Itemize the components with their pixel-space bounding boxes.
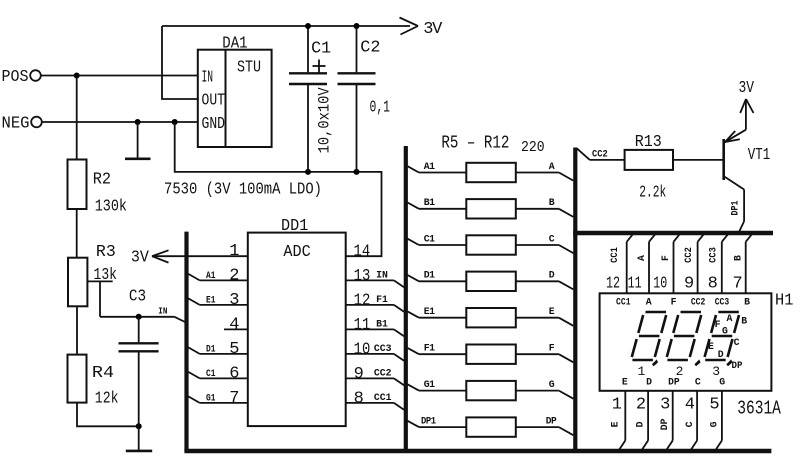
resistor R13 bbox=[625, 150, 673, 170]
net label DP1 (row) bbox=[421, 416, 436, 427]
label R5 - R12 bbox=[441, 134, 509, 154]
svg-text:R2: R2 bbox=[93, 171, 111, 190]
svg-text:B1: B1 bbox=[424, 197, 435, 208]
label ADC bbox=[283, 243, 310, 262]
label R4 bbox=[92, 364, 114, 383]
wire POS to DA1 IN bbox=[41, 75, 198, 77]
net label D (row) bbox=[549, 270, 555, 281]
svg-text:10,0x10V: 10,0x10V bbox=[316, 87, 334, 154]
wire display top pin 10 (F) to top bus bbox=[674, 234, 681, 294]
wire DP from R12 to right bus bbox=[516, 427, 574, 435]
svg-text:8: 8 bbox=[708, 274, 718, 293]
pin label D (inside H1 bottom) bbox=[646, 377, 652, 388]
wire E from R9 to right bus bbox=[516, 318, 574, 326]
label DD1 bbox=[281, 217, 308, 236]
svg-text:A1: A1 bbox=[206, 270, 216, 281]
svg-text:R5 – R12: R5 – R12 bbox=[441, 134, 509, 154]
resistor R6 (B segment) bbox=[466, 199, 516, 218]
svg-text:3: 3 bbox=[660, 396, 670, 415]
pin number 7 (H1 top) bbox=[732, 274, 742, 293]
pin number 12 (H1 top) bbox=[606, 274, 620, 293]
ADC DD1 box bbox=[248, 233, 346, 427]
value 13k (R3) bbox=[94, 266, 118, 285]
wire display bottom pin 1 (E) to bottom bus bbox=[619, 391, 625, 450]
net label A1 (pin 2) bbox=[206, 270, 216, 281]
power arrow 3V (top rail) bbox=[400, 18, 419, 35]
pin label E (inside H1 bottom) bbox=[622, 377, 628, 388]
segment label A (digit 3) bbox=[727, 313, 733, 324]
net label F1 (row) bbox=[424, 343, 435, 354]
pin number 5 (H1 bottom) bbox=[709, 396, 719, 415]
pin label DP (inside H1 bottom) bbox=[668, 377, 680, 388]
svg-text:D: D bbox=[549, 270, 555, 281]
wire C1 from middle bus to R7 bbox=[408, 239, 467, 245]
power arrow 3V (VT1) bbox=[740, 99, 753, 113]
svg-text:DD1: DD1 bbox=[281, 217, 308, 236]
pin number 3 (H1 bottom) bbox=[660, 396, 670, 415]
wire display top pin 12 (CC1) to top bus bbox=[627, 234, 634, 294]
net label 3V (pin 1) bbox=[131, 249, 150, 268]
svg-text:DA1: DA1 bbox=[222, 35, 247, 54]
net label CC3 (pin 10) bbox=[374, 343, 392, 354]
wire G1 from middle bus to R11 bbox=[408, 384, 467, 390]
7-seg digit 3 (H1) bbox=[705, 312, 739, 360]
svg-text:130k: 130k bbox=[95, 198, 127, 217]
wire pin 11 B1 to middle bus bbox=[346, 329, 404, 336]
label R2 bbox=[93, 171, 111, 190]
capacitor C1 bbox=[289, 26, 327, 172]
svg-text:B: B bbox=[741, 316, 747, 327]
net label F (H1 top wire) bbox=[660, 255, 671, 261]
label 7530 (3V 100mA LDO) bbox=[164, 181, 322, 200]
decimal point after digit 3 bbox=[726, 359, 732, 366]
pin label C (inside H1 bottom) bbox=[695, 377, 701, 388]
resistor R7 (C segment) bbox=[466, 235, 516, 254]
wire pin 3 E1 to left bus bbox=[188, 298, 248, 305]
label C1 bbox=[311, 40, 331, 59]
label POS bbox=[2, 68, 29, 87]
net label A1 (row) bbox=[424, 161, 435, 172]
digit index 2 (H1) bbox=[676, 364, 683, 379]
junction C2 bottom bbox=[354, 169, 360, 175]
net label B1 (pin 11) bbox=[376, 319, 388, 330]
svg-text:DP: DP bbox=[546, 416, 557, 427]
net label B1 (row) bbox=[424, 197, 435, 208]
wire display bottom pin 5 (G) to bottom bus bbox=[716, 391, 722, 450]
resistor R2 bbox=[68, 160, 87, 210]
value 10,0x10V (C1) bbox=[316, 87, 334, 154]
wire pin 2 A1 to left bus bbox=[188, 274, 248, 281]
wire R2 to R3 bbox=[76, 209, 78, 258]
net label G1 (row) bbox=[424, 379, 435, 390]
net label B (H1 top wire) bbox=[733, 255, 744, 261]
svg-text:A: A bbox=[549, 161, 555, 172]
junction C1 bottom bbox=[305, 169, 311, 175]
net label C1 (row) bbox=[424, 233, 435, 244]
svg-text:7530 (3V 100mA LDO): 7530 (3V 100mA LDO) bbox=[164, 181, 322, 200]
pin number 9 (DD1) bbox=[354, 365, 364, 384]
pin number 8 (H1 top) bbox=[708, 274, 718, 293]
svg-text:A: A bbox=[727, 313, 733, 324]
bus left vertical bbox=[184, 232, 188, 451]
svg-text:D: D bbox=[718, 349, 724, 360]
value 12k (R4) bbox=[95, 390, 119, 409]
svg-text:E: E bbox=[708, 341, 714, 352]
wire display top pin 8 (CC3) to top bus bbox=[722, 234, 729, 294]
segment label E (digit 3) bbox=[708, 341, 714, 352]
wire R13 to VT1 base bbox=[673, 159, 723, 161]
svg-text:R13: R13 bbox=[635, 133, 662, 152]
svg-text:E1: E1 bbox=[424, 306, 435, 317]
wire pin 5 D1 to left bus bbox=[188, 347, 248, 354]
svg-text:C: C bbox=[684, 421, 695, 427]
svg-text:DP1: DP1 bbox=[730, 200, 741, 215]
pin label OUT (DA1) bbox=[202, 92, 226, 111]
svg-text:NEG: NEG bbox=[2, 115, 30, 134]
svg-text:14: 14 bbox=[354, 242, 371, 261]
svg-text:G: G bbox=[708, 421, 719, 427]
svg-text:1: 1 bbox=[229, 242, 239, 261]
resistor R3 bbox=[68, 258, 87, 307]
wire pin 10 CC3 to middle bus bbox=[346, 354, 404, 361]
svg-text:E: E bbox=[609, 421, 620, 427]
junction NEG-ground bbox=[135, 119, 141, 125]
wire R4 bottom to C3 bottom bbox=[77, 403, 139, 427]
svg-text:220: 220 bbox=[521, 139, 545, 156]
pin label B (inside H1 top) bbox=[744, 296, 750, 307]
svg-text:F: F bbox=[660, 255, 671, 261]
net label 3V (top rail) bbox=[423, 20, 443, 39]
svg-text:DP1: DP1 bbox=[421, 416, 436, 427]
svg-text:4: 4 bbox=[229, 316, 239, 335]
pin number 7 (DD1) bbox=[229, 389, 238, 408]
display H1 box bbox=[600, 293, 772, 391]
svg-text:3631A: 3631A bbox=[737, 398, 781, 420]
label STU bbox=[237, 59, 261, 78]
polarity + (C1) bbox=[313, 60, 326, 73]
net label CC2 (H1 top wire) bbox=[683, 247, 694, 263]
pin number 14 (DD1) bbox=[354, 242, 371, 261]
bus right vertical bbox=[573, 148, 577, 452]
wire B from R6 to right bus bbox=[516, 209, 574, 217]
regulator DA1 box bbox=[198, 50, 272, 147]
svg-text:CC3: CC3 bbox=[715, 296, 730, 307]
svg-text:R3: R3 bbox=[96, 243, 116, 262]
net label A (row) bbox=[549, 161, 555, 172]
svg-text:1: 1 bbox=[637, 364, 645, 379]
wire display top pin 9 (CC2) to top bus bbox=[698, 234, 705, 294]
wire IN diagonal to bus bbox=[175, 317, 187, 323]
svg-text:F1: F1 bbox=[376, 294, 388, 305]
net label DP (row) bbox=[546, 416, 557, 427]
pin number 4 (DD1) bbox=[229, 316, 239, 335]
resistor R5 (A segment) bbox=[466, 163, 516, 182]
svg-text:B: B bbox=[733, 255, 744, 261]
svg-text:CC1: CC1 bbox=[616, 296, 631, 307]
svg-text:2: 2 bbox=[676, 364, 683, 379]
net label D1 (row) bbox=[424, 270, 435, 281]
net label CC2 (R13) bbox=[592, 149, 608, 160]
bus middle vertical bbox=[404, 146, 408, 451]
svg-text:G: G bbox=[549, 379, 555, 390]
bus top-right horizontal bbox=[573, 231, 773, 235]
svg-text:E1: E1 bbox=[206, 294, 216, 305]
svg-text:0,1: 0,1 bbox=[370, 99, 391, 118]
wire 3V top rail bbox=[162, 25, 410, 27]
net label F (row) bbox=[549, 343, 555, 354]
svg-text:IN: IN bbox=[202, 68, 214, 87]
junction C1 top rail bbox=[305, 23, 311, 29]
svg-text:10: 10 bbox=[653, 274, 667, 293]
net label CC3 (H1 top wire) bbox=[707, 247, 718, 263]
svg-text:OUT: OUT bbox=[202, 92, 226, 111]
wire display bottom pin 4 (C) to bottom bus bbox=[691, 391, 697, 450]
net label B (row) bbox=[549, 197, 555, 208]
svg-text:2: 2 bbox=[229, 267, 238, 286]
junction NEG-bottomrail bbox=[172, 119, 178, 125]
wire pin 12 F1 to middle bus bbox=[346, 305, 404, 312]
svg-text:3: 3 bbox=[712, 364, 719, 379]
wire CC2 from right bus to R13 bbox=[577, 149, 625, 160]
svg-text:CC1: CC1 bbox=[609, 247, 620, 263]
wire DP1 from middle bus to R12 bbox=[408, 421, 467, 427]
svg-text:8: 8 bbox=[354, 389, 364, 408]
net label C1 (pin 6) bbox=[206, 368, 216, 379]
segment label DP (digit 3) bbox=[732, 360, 743, 371]
wire pin 13 IN to middle bus bbox=[346, 280, 404, 287]
pin number 13 (DD1) bbox=[354, 267, 371, 286]
wire display bottom pin 2 (D) to bottom bus bbox=[642, 391, 648, 450]
wiper tap R3 bbox=[87, 281, 112, 316]
ground (DA1) bbox=[125, 122, 151, 159]
wire display top pin 7 (B) to top bus bbox=[746, 234, 753, 294]
svg-text:6: 6 bbox=[229, 365, 239, 384]
wire F1 from middle bus to R10 bbox=[408, 348, 467, 354]
resistor R10 (F segment) bbox=[466, 345, 516, 364]
pin label CC2 (inside H1 top) bbox=[691, 296, 706, 307]
svg-text:CC2: CC2 bbox=[683, 247, 694, 263]
pin number 10 (H1 top) bbox=[653, 274, 667, 293]
decimal point after digit 1 bbox=[652, 359, 658, 366]
capacitor C3 bbox=[119, 317, 159, 427]
svg-text:12k: 12k bbox=[95, 390, 119, 409]
net label D (H1 bottom wire) bbox=[634, 421, 645, 427]
segment label C (digit 3) bbox=[734, 337, 740, 348]
net label IN (C3) bbox=[158, 306, 167, 317]
svg-text:G1: G1 bbox=[424, 379, 435, 390]
svg-text:5: 5 bbox=[709, 396, 719, 415]
svg-text:C2: C2 bbox=[360, 39, 380, 58]
pin number 2 (H1 bottom) bbox=[636, 396, 645, 415]
svg-text:VT1: VT1 bbox=[748, 146, 770, 165]
net label IN (pin 13) bbox=[376, 270, 388, 281]
wire R3 to R4 bbox=[76, 306, 78, 354]
svg-text:IN: IN bbox=[158, 306, 167, 317]
wire pin 9 CC2 to middle bus bbox=[346, 378, 404, 385]
net label A (H1 top wire) bbox=[636, 255, 647, 261]
svg-text:C: C bbox=[549, 233, 555, 244]
resistor R11 (G segment) bbox=[466, 381, 516, 400]
pin number 5 (DD1) bbox=[229, 340, 239, 359]
wire F from R10 to right bus bbox=[516, 354, 574, 362]
net label E1 (row) bbox=[424, 306, 435, 317]
wire display bottom pin 3 (DP) to bottom bus bbox=[667, 391, 673, 450]
svg-text:G: G bbox=[719, 377, 725, 388]
segment label G (digit 3) bbox=[722, 326, 728, 337]
wire A from R5 to right bus bbox=[516, 173, 574, 181]
wire D from R8 to right bus bbox=[516, 281, 574, 289]
svg-text:GND: GND bbox=[202, 115, 226, 134]
wire C from R7 to right bus bbox=[516, 245, 574, 253]
svg-text:9: 9 bbox=[684, 274, 694, 293]
value 220 (R5-R12) bbox=[521, 139, 545, 156]
svg-text:G1: G1 bbox=[206, 392, 216, 403]
power arrow 3V (pin 1) bbox=[152, 250, 169, 262]
svg-text:7: 7 bbox=[229, 389, 238, 408]
net label G (row) bbox=[549, 379, 555, 390]
svg-text:13: 13 bbox=[354, 267, 371, 286]
svg-text:CC3: CC3 bbox=[374, 343, 392, 354]
7-seg digit 1 (H1) bbox=[632, 312, 666, 360]
label C2 bbox=[360, 39, 380, 58]
resistor R8 (D segment) bbox=[466, 272, 516, 291]
pin label A (inside H1 top) bbox=[646, 296, 652, 307]
wire NEG to C1/C2 bottoms and DD1 pin 14 bbox=[175, 122, 382, 256]
svg-text:CC2: CC2 bbox=[374, 368, 392, 379]
svg-text:C: C bbox=[734, 337, 740, 348]
segment label D (digit 3) bbox=[718, 349, 724, 360]
svg-text:H1: H1 bbox=[775, 292, 793, 311]
svg-text:ADC: ADC bbox=[283, 243, 310, 262]
svg-text:C3: C3 bbox=[129, 288, 146, 307]
svg-text:11: 11 bbox=[354, 316, 371, 335]
svg-text:F: F bbox=[549, 343, 555, 354]
digit index 3 (H1) bbox=[712, 364, 719, 379]
svg-text:C: C bbox=[695, 377, 701, 388]
wire pin 1 to 3V arrow bbox=[152, 255, 248, 257]
label DA1 bbox=[222, 35, 247, 54]
junction C2 top rail bbox=[354, 23, 360, 29]
pin number 8 (DD1) bbox=[354, 389, 364, 408]
net label CC1 (pin 8) bbox=[374, 392, 392, 403]
net label G1 (pin 7) bbox=[206, 392, 216, 403]
pin number 2 (DD1) bbox=[229, 267, 238, 286]
svg-text:CC2: CC2 bbox=[592, 149, 608, 160]
value 0,1 (C2) bbox=[370, 99, 391, 118]
svg-text:C1: C1 bbox=[311, 40, 331, 59]
net label C (row) bbox=[549, 233, 555, 244]
svg-text:9: 9 bbox=[354, 365, 364, 384]
wire pin 6 C1 to left bus bbox=[188, 372, 248, 379]
pin number 4 (H1 bottom) bbox=[685, 396, 695, 415]
svg-text:R4: R4 bbox=[92, 364, 114, 383]
transistor VT1 bbox=[724, 100, 746, 222]
svg-text:F1: F1 bbox=[424, 343, 435, 354]
svg-text:F: F bbox=[671, 296, 677, 307]
svg-text:B1: B1 bbox=[376, 319, 388, 330]
terminal NEG bbox=[31, 117, 42, 128]
wire pin 7 G1 to left bus bbox=[188, 396, 248, 403]
svg-text:D: D bbox=[634, 421, 645, 427]
label R13 bbox=[635, 133, 662, 152]
pin label CC3 (inside H1 top) bbox=[715, 296, 730, 307]
svg-text:12: 12 bbox=[606, 274, 620, 293]
svg-text:C1: C1 bbox=[424, 233, 435, 244]
svg-text:C1: C1 bbox=[206, 368, 216, 379]
svg-text:B: B bbox=[549, 197, 555, 208]
svg-text:G: G bbox=[722, 326, 728, 337]
wire rail to DA1 OUT bbox=[162, 26, 198, 99]
svg-text:3V: 3V bbox=[131, 249, 150, 268]
net label DP (H1 bottom wire) bbox=[659, 418, 670, 430]
wire G from R11 to right bus bbox=[516, 391, 574, 399]
net label E (row) bbox=[549, 306, 555, 317]
value 130k (R2) bbox=[95, 198, 127, 217]
wire E1 from middle bus to R9 bbox=[408, 311, 467, 317]
7-seg digit 2 (H1) bbox=[667, 312, 701, 360]
label VT1 bbox=[748, 146, 770, 165]
svg-text:3V: 3V bbox=[739, 79, 755, 98]
label R3 bbox=[96, 243, 116, 262]
svg-text:STU: STU bbox=[237, 59, 261, 78]
pin number 3 (DD1) bbox=[229, 291, 239, 310]
net label DP1 (VT1) bbox=[730, 200, 741, 215]
resistor R4 bbox=[68, 355, 87, 403]
svg-text:3: 3 bbox=[229, 291, 239, 310]
capacitor C2 bbox=[338, 26, 376, 172]
label 3631A bbox=[737, 398, 781, 420]
pin number 12 (DD1) bbox=[354, 291, 371, 310]
wire POS junction to R2 bbox=[76, 76, 78, 160]
wire B1 from middle bus to R6 bbox=[408, 203, 467, 209]
svg-text:2: 2 bbox=[636, 396, 645, 415]
svg-text:10: 10 bbox=[354, 340, 371, 359]
svg-text:POS: POS bbox=[2, 68, 29, 87]
svg-text:2.2k: 2.2k bbox=[639, 184, 666, 203]
svg-text:DP: DP bbox=[732, 360, 743, 371]
pin label F (inside H1 top) bbox=[671, 296, 677, 307]
svg-text:CC2: CC2 bbox=[691, 296, 706, 307]
net label C (H1 bottom wire) bbox=[684, 421, 695, 427]
bus bottom horizontal bbox=[184, 449, 771, 453]
svg-text:IN: IN bbox=[376, 270, 388, 281]
junction C3 bottom bbox=[136, 423, 142, 429]
pin number 11 (DD1) bbox=[354, 316, 371, 335]
svg-text:D: D bbox=[646, 377, 652, 388]
junction C3 top bbox=[136, 314, 142, 320]
wire NEG to DA1 GND bbox=[42, 121, 198, 123]
pin label GND (DA1) bbox=[202, 115, 226, 134]
svg-text:F: F bbox=[715, 319, 721, 330]
label NEG bbox=[2, 115, 30, 134]
pin number 11 (H1 top) bbox=[628, 274, 642, 293]
decimal point after digit 2 bbox=[694, 359, 700, 366]
svg-text:11: 11 bbox=[628, 274, 642, 293]
resistor R12 (DP segment) bbox=[466, 417, 516, 436]
svg-text:3V: 3V bbox=[423, 20, 443, 39]
svg-text:CC1: CC1 bbox=[374, 392, 392, 403]
net label F1 (pin 12) bbox=[376, 294, 388, 305]
pin number 10 (DD1) bbox=[354, 340, 371, 359]
svg-text:A1: A1 bbox=[424, 161, 435, 172]
net label E (H1 bottom wire) bbox=[609, 421, 620, 427]
pin label CC1 (inside H1 top) bbox=[616, 296, 631, 307]
pin number 6 (DD1) bbox=[229, 365, 239, 384]
segment label B (digit 3) bbox=[741, 316, 747, 327]
svg-text:12: 12 bbox=[354, 291, 371, 310]
svg-text:B: B bbox=[744, 296, 750, 307]
pin label IN (DA1) bbox=[202, 68, 214, 87]
